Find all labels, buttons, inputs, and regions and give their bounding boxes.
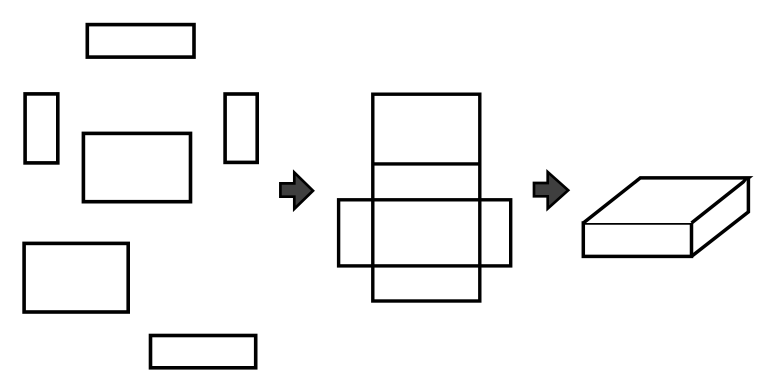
3D box: right face	[692, 178, 749, 257]
loose face: right vertical small rectangle	[225, 94, 257, 162]
net: tall vertical rectangle	[373, 94, 480, 301]
block arrow 1	[280, 172, 313, 209]
net: wide horizontal rectangle	[339, 200, 511, 266]
loose face: top horizontal rectangle	[87, 25, 194, 58]
block arrow 2	[534, 172, 568, 209]
loose face: bottom-left large rectangle	[24, 243, 128, 312]
loose face: middle large rectangle	[83, 133, 190, 201]
3D box: top face	[583, 178, 748, 223]
net: fold divider line	[373, 162, 480, 165]
loose face: left vertical small rectangle	[25, 94, 58, 163]
loose face: bottom horizontal rectangle	[151, 336, 256, 368]
3D box: front face	[583, 223, 691, 256]
